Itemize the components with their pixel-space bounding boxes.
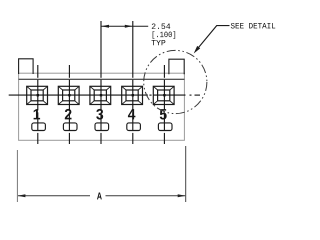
SEE DETAIL text <box>231 23 275 29</box>
pin number label 2 <box>65 109 72 119</box>
pin 5 (square pin, front view) <box>153 86 174 104</box>
dimension A : left extension line <box>16 150 18 202</box>
dimension A right arrowhead <box>178 194 186 197</box>
solder tab below pin 1 <box>32 123 46 131</box>
pin number label 1 <box>34 109 40 119</box>
SEE DETAIL leader line <box>196 26 230 51</box>
solder tab below pin 2 <box>63 123 77 131</box>
dimension text 2.54 [.100] TYP <box>152 23 176 45</box>
dimension A left arrowhead <box>18 194 26 197</box>
dimension 2.54 [.100] TYP : dimension line <box>101 25 148 27</box>
solder tab below pin 5 <box>158 123 172 131</box>
SEE DETAIL leader arrowhead <box>194 46 201 54</box>
pin number label 5 <box>160 109 167 119</box>
pin 1 (square pin, front view) <box>27 86 48 104</box>
dimension A text <box>97 193 102 200</box>
pin 4 (square pin, front view) <box>122 86 143 104</box>
pin 2 (square pin, front view) <box>58 86 79 104</box>
left polarizing tab <box>19 59 33 74</box>
right polarizing tab <box>169 59 184 74</box>
detail circle (phantom line) around pin 5 <box>144 50 207 113</box>
solder tab below pin 4 <box>127 123 141 131</box>
solder tab below pin 3 <box>95 123 109 131</box>
dimension A : right extension line <box>185 146 187 202</box>
housing cavity front edge <box>19 78 185 80</box>
pin 5 vertical centerline <box>163 65 165 144</box>
pin number label 4 <box>128 109 135 119</box>
dimension 2.54 right arrowhead <box>125 25 133 28</box>
pin 4 vertical centerline <box>132 21 134 144</box>
horizontal centerline through pin row <box>9 94 200 96</box>
pin 3 (square pin, front view) <box>90 86 111 104</box>
housing body outline <box>19 73 185 140</box>
pin number label 3 <box>96 109 103 120</box>
dimension 2.54 left arrowhead <box>101 25 109 28</box>
pin 2 vertical centerline <box>68 65 70 144</box>
pin 1 vertical centerline <box>37 65 39 144</box>
pin 3 vertical centerline <box>100 21 102 144</box>
dimension A : dimension line <box>18 195 185 197</box>
